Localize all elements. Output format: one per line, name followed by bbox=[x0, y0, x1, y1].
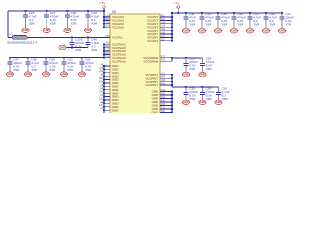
svg-text:L1: L1 bbox=[10, 32, 14, 36]
svg-text:X5R: X5R bbox=[91, 21, 98, 25]
svg-text:G14: G14 bbox=[161, 22, 166, 24]
svg-text:GND: GND bbox=[183, 102, 188, 104]
svg-text:M18: M18 bbox=[161, 90, 166, 92]
svg-text:G16: G16 bbox=[161, 26, 166, 28]
svg-text:M22: M22 bbox=[105, 19, 110, 21]
svg-text:GND: GND bbox=[79, 74, 84, 76]
svg-text:VCCAUX: VCCAUX bbox=[112, 25, 124, 29]
svg-text:GND: GND bbox=[7, 74, 12, 76]
svg-text:GND: GND bbox=[43, 74, 48, 76]
svg-text:GND: GND bbox=[61, 74, 66, 76]
svg-text:N22: N22 bbox=[105, 53, 110, 55]
svg-text:X5R: X5R bbox=[91, 48, 98, 52]
svg-text:BLM18KB601SZ1-T: BLM18KB601SZ1-T bbox=[8, 40, 38, 44]
svg-text:X5R: X5R bbox=[206, 67, 213, 71]
svg-text:R18: R18 bbox=[161, 104, 166, 106]
svg-text:GND: GND bbox=[65, 30, 70, 32]
svg-text:X5R: X5R bbox=[222, 97, 229, 101]
svg-text:X5R: X5R bbox=[206, 97, 213, 101]
svg-text:X5R: X5R bbox=[31, 68, 38, 72]
svg-text:GND: GND bbox=[279, 31, 284, 33]
svg-text:U5: U5 bbox=[112, 10, 116, 14]
svg-text:P17: P17 bbox=[161, 56, 166, 58]
svg-text:GND: GND bbox=[25, 74, 30, 76]
svg-text:GND: GND bbox=[215, 31, 220, 33]
svg-text:N21: N21 bbox=[161, 97, 166, 99]
svg-text:X5R: X5R bbox=[67, 68, 74, 72]
svg-text:GND: GND bbox=[263, 31, 268, 33]
svg-text:X5R: X5R bbox=[205, 23, 212, 27]
svg-text:F16: F16 bbox=[161, 19, 166, 21]
svg-text:H14: H14 bbox=[161, 29, 166, 31]
svg-text:X7R: X7R bbox=[285, 23, 292, 27]
svg-text:T13: T13 bbox=[161, 108, 166, 110]
svg-text:X5R: X5R bbox=[189, 67, 196, 71]
svg-text:VCCDRAM: VCCDRAM bbox=[143, 59, 158, 63]
svg-text:GND: GND bbox=[231, 31, 236, 33]
svg-text:GND: GND bbox=[216, 102, 221, 104]
svg-text:X5R: X5R bbox=[29, 21, 36, 25]
svg-text:GND: GND bbox=[60, 47, 65, 49]
svg-text:GND: GND bbox=[200, 102, 205, 104]
svg-text:X5R: X5R bbox=[221, 23, 228, 27]
svg-text:1.8V: 1.8V bbox=[99, 1, 105, 5]
svg-text:R15: R15 bbox=[161, 60, 166, 62]
svg-text:X5R: X5R bbox=[13, 68, 20, 72]
svg-text:N16: N16 bbox=[161, 80, 166, 82]
svg-text:GND: GND bbox=[23, 30, 28, 32]
svg-text:D19: D19 bbox=[105, 26, 110, 28]
svg-text:H16: H16 bbox=[161, 33, 166, 35]
svg-text:GND: GND bbox=[199, 31, 204, 33]
svg-text:X5R: X5R bbox=[253, 23, 260, 27]
svg-text:T20: T20 bbox=[161, 111, 166, 113]
svg-text:GND: GND bbox=[152, 111, 158, 113]
svg-text:GND: GND bbox=[112, 108, 118, 112]
svg-text:1.0V: 1.0V bbox=[173, 1, 179, 5]
svg-text:GND: GND bbox=[183, 75, 188, 77]
svg-text:GND: GND bbox=[247, 31, 252, 33]
svg-text:N13: N13 bbox=[161, 94, 166, 96]
svg-text:P16: P16 bbox=[105, 56, 110, 58]
svg-text:X5R: X5R bbox=[269, 23, 276, 27]
svg-text:X5R: X5R bbox=[71, 21, 78, 25]
svg-text:M21: M21 bbox=[105, 46, 110, 48]
svg-text:X5R: X5R bbox=[189, 23, 196, 27]
svg-text:X5R: X5R bbox=[49, 68, 56, 72]
svg-text:GND: GND bbox=[200, 75, 205, 77]
svg-text:GND: GND bbox=[85, 30, 90, 32]
svg-text:GND: GND bbox=[44, 30, 49, 32]
svg-text:X5R: X5R bbox=[85, 68, 92, 72]
svg-text:P14: P14 bbox=[161, 84, 166, 86]
svg-text:K20: K20 bbox=[105, 43, 110, 45]
svg-text:VCCINT: VCCINT bbox=[147, 39, 158, 43]
svg-text:X5R: X5R bbox=[237, 23, 244, 27]
svg-text:M14: M14 bbox=[161, 77, 166, 79]
svg-text:VCCPLL: VCCPLL bbox=[112, 36, 124, 40]
svg-text:X5R: X5R bbox=[75, 48, 82, 52]
svg-text:F15: F15 bbox=[161, 16, 166, 18]
svg-text:VCCPINT: VCCPINT bbox=[145, 83, 158, 87]
svg-text:VCCPAUX: VCCPAUX bbox=[112, 59, 126, 63]
svg-text:X5R: X5R bbox=[50, 21, 57, 25]
svg-text:GND: GND bbox=[183, 31, 188, 33]
svg-text:X5R: X5R bbox=[189, 97, 196, 101]
